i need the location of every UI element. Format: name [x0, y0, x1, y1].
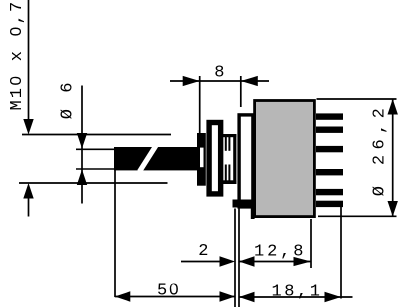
dimension M10: lower leader line [28, 194, 30, 217]
shaft lower outline (broken part) [76, 168, 115, 170]
zero glyph dot patches [171, 284, 175, 291]
pin 2 [316, 127, 343, 133]
bottom tab [233, 200, 255, 208]
shaft upper outline (broken part) [76, 148, 115, 150]
shaft solid body [114, 147, 197, 170]
dimension Ø26,2: up arrow [388, 99, 398, 115]
thread end edge [233, 134, 236, 184]
dimension 12,8: right arrow [294, 257, 312, 266]
extension line pin ends (18,1) [340, 207, 342, 299]
switch body fill [256, 102, 313, 215]
pin 3 [316, 146, 343, 152]
dimension 50: line [115, 296, 235, 298]
svg-text:2: 2 [198, 242, 208, 261]
body top extension line [317, 98, 397, 100]
dimension Ø26,2: down arrow [388, 201, 398, 217]
svg-text:Ø 6: Ø 6 [59, 79, 78, 119]
dimension 12,8: left arrow [239, 256, 255, 266]
extension line plate left (12,8/18,1) [238, 209, 240, 307]
body bottom extension line [318, 215, 397, 217]
dimension 18,1: right arrow [325, 292, 342, 302]
thread top edge [223, 134, 236, 137]
washer [197, 133, 206, 186]
dimension 8: left extension line [199, 76, 201, 133]
dimension 18,1: line [239, 296, 353, 298]
pin 5 [316, 189, 343, 195]
dimension 2: right arrow [220, 256, 236, 266]
svg-text:M10 x 0,75: M10 x 0,75 [8, 0, 27, 111]
dimension 50: left arrow [115, 291, 131, 301]
shaft break mark [140, 146, 157, 172]
dimension Ø26,2: line [392, 99, 394, 217]
svg-text:8: 8 [214, 64, 224, 83]
dimension 8: right extension line [240, 76, 242, 107]
plate lower-right edge extension [251, 205, 255, 219]
svg-text:50: 50 [157, 282, 179, 301]
dimension 8: right arrow [241, 76, 258, 86]
mounting plate [239, 115, 253, 207]
dimension M10: top measure line [22, 134, 171, 136]
nut [209, 123, 221, 194]
dimension 8: left arrow [183, 76, 200, 86]
dimension M10: upper leader line [28, 0, 30, 123]
dimension 12,8: line [239, 261, 311, 263]
pin 1 [316, 113, 343, 119]
dimension 2: leader line [181, 261, 224, 263]
dimension 50: right arrow [220, 291, 236, 301]
dimension M10: down arrow [23, 119, 33, 135]
extension line shaft end (50) [114, 169, 116, 297]
switch body [253, 99, 316, 218]
extension line body right (12,8) [310, 219, 312, 268]
dimension 8: line [170, 80, 269, 82]
dimension M10: up arrow [23, 183, 33, 199]
dimension M10: bottom measure line [19, 182, 168, 184]
dimension Ø6: down arrow [77, 133, 87, 149]
pin 6 [316, 201, 343, 207]
dimension 18,1: left arrow [239, 292, 255, 302]
extension line tab left (2/50) [234, 209, 236, 307]
dimension Ø6: up arrow [77, 170, 87, 186]
thread hatch lines [226, 137, 230, 181]
washer bore slot [200, 148, 204, 168]
thread bottom edge [223, 180, 236, 184]
pin 4 [316, 169, 343, 175]
dimension Ø6: upper leader line [81, 86, 83, 204]
